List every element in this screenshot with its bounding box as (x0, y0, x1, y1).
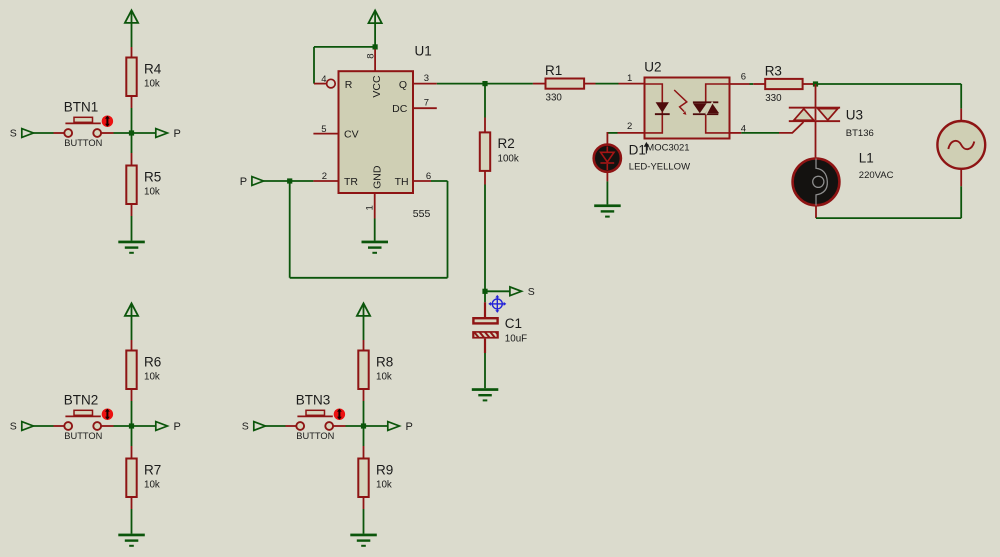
resistor R1 (546, 79, 585, 89)
wire (750, 83, 754, 85)
U2 internal triac bracket (706, 84, 730, 133)
pin stub BTN2 left (54, 425, 64, 427)
ground (BTN3 divider) (350, 534, 377, 537)
svg-text:BTN1: BTN1 (64, 99, 99, 114)
pin stub R8 top (363, 340, 365, 351)
resistor R3 (765, 79, 802, 89)
wire (313, 47, 315, 84)
terminal P arrow (BTN1) (156, 129, 168, 138)
svg-text:TH: TH (395, 176, 409, 188)
pin stub R1 right (584, 83, 595, 85)
ground (555) (362, 241, 389, 244)
pin stub U1 pin3 (Q) (413, 83, 437, 85)
wire (314, 46, 375, 48)
ground (BTN1 divider) (118, 241, 145, 244)
pin stub BTN2 right (101, 425, 114, 427)
svg-text:10k: 10k (144, 79, 160, 90)
button actuator (BTN3) (334, 409, 345, 420)
svg-text:10k: 10k (144, 187, 160, 198)
wire (132, 132, 156, 134)
wire (265, 425, 285, 427)
U2 internal triac (693, 101, 718, 103)
svg-text:R9: R9 (376, 462, 393, 477)
wire (960, 186, 962, 218)
pin stub R9 top (363, 446, 365, 459)
wire (131, 23, 133, 47)
wire (484, 185, 486, 292)
resistor R2 (480, 132, 490, 171)
wire (114, 132, 132, 134)
pin stub U1 pin6 (TH) (413, 180, 431, 182)
svg-text:R8: R8 (376, 354, 393, 369)
pin stub C1 bottom (484, 339, 486, 353)
wire (364, 425, 388, 427)
U2 light arrow (674, 90, 687, 112)
svg-text:S: S (10, 128, 17, 140)
button actuator (BTN2) (102, 409, 113, 420)
pin stub BTN3 left (286, 425, 296, 427)
wire (131, 401, 133, 426)
svg-text:C1: C1 (505, 316, 522, 331)
triac U3 (BT136) (789, 107, 840, 109)
terminal P arrow (BTN3) (388, 422, 400, 431)
wire (114, 425, 132, 427)
svg-text:10k: 10k (376, 372, 392, 383)
pin stub R5 bottom (131, 204, 133, 216)
svg-text:DC: DC (392, 103, 408, 115)
capacitor C1 bottom plate (hatched) (472, 331, 499, 339)
svg-text:BTN3: BTN3 (296, 392, 331, 407)
push button BTN3 (296, 422, 304, 430)
pin stub AC source bottom (960, 169, 962, 186)
svg-text:4: 4 (321, 74, 326, 85)
svg-text:BUTTON: BUTTON (64, 138, 102, 148)
svg-text:TR: TR (344, 176, 358, 188)
pin stub U1 pin7 (DC) (413, 107, 437, 109)
pin stub R2 bottom (484, 171, 486, 185)
wire (346, 425, 364, 427)
wire (741, 132, 779, 134)
svg-text:1: 1 (627, 73, 632, 84)
lamp filament (816, 159, 827, 206)
wire (131, 133, 133, 153)
svg-text:8: 8 (365, 53, 376, 58)
pin stub L1 bottom (815, 206, 817, 219)
wire (596, 83, 619, 85)
power rail VCC (BTN1 divider) (125, 10, 138, 23)
terminal S arrow (BTN2) (22, 422, 34, 431)
svg-text:6: 6 (426, 171, 431, 182)
svg-text:10k: 10k (144, 372, 160, 383)
svg-text:GND: GND (372, 165, 384, 189)
pin stub R6 bottom (131, 389, 133, 401)
node TR loop (287, 178, 292, 183)
svg-text:P: P (240, 176, 247, 188)
power rail VCC (BTN2 divider) (125, 303, 138, 316)
node Q output (482, 81, 487, 86)
svg-text:100k: 100k (498, 153, 519, 164)
pin stub R8 bottom (363, 389, 365, 401)
wire (431, 180, 448, 182)
pin stub D1 anode (606, 132, 608, 144)
svg-text:10k: 10k (376, 480, 392, 491)
pin stub U3 gate (779, 122, 804, 133)
svg-text:D1: D1 (629, 142, 646, 157)
terminal P arrow (555 trigger) (252, 177, 264, 186)
wire (131, 509, 133, 534)
node VCC/reset loop (373, 44, 378, 49)
LED D1 (LED-YELLOW) (594, 145, 621, 172)
node triac MT2 (813, 81, 818, 86)
wire (374, 219, 376, 241)
wire (374, 24, 376, 47)
wire (447, 181, 449, 278)
inversion bubble U1 pin 4 (327, 79, 336, 88)
wire (816, 83, 962, 85)
wire (606, 181, 608, 204)
svg-text:330: 330 (546, 92, 563, 103)
svg-text:CV: CV (344, 129, 359, 141)
svg-text:220VAC: 220VAC (859, 170, 894, 181)
pin stub U3 MT1 (815, 122, 817, 157)
origin marker (blue) (490, 296, 505, 311)
pin stub AC source top (960, 109, 962, 121)
svg-text:U1: U1 (415, 43, 432, 58)
pin stub R3 right (803, 83, 816, 85)
wire (264, 180, 314, 182)
svg-text:BT136: BT136 (846, 128, 874, 139)
pin stub U2 pin6 (730, 83, 750, 85)
button actuator (BTN1) (102, 116, 113, 127)
pin stub C1 top (484, 302, 486, 318)
pin stub R9 bottom (363, 497, 365, 509)
svg-text:R4: R4 (144, 61, 162, 76)
push button BTN1 (64, 129, 72, 137)
svg-text:U2: U2 (644, 59, 661, 74)
wire (363, 316, 365, 340)
svg-text:P: P (406, 421, 413, 433)
wire (363, 509, 365, 534)
svg-text:R2: R2 (498, 136, 515, 151)
AC source V1 (220V) (937, 121, 985, 169)
svg-text:R: R (345, 79, 353, 91)
svg-text:6: 6 (741, 71, 746, 82)
wire (363, 426, 365, 446)
svg-text:VCC: VCC (371, 75, 383, 98)
node BTN1/divider (129, 130, 134, 135)
svg-text:P: P (174, 421, 181, 433)
svg-text:BUTTON: BUTTON (64, 431, 102, 441)
pin stub BTN1 left (54, 132, 64, 134)
svg-text:555: 555 (413, 208, 431, 220)
pin stub U1 pin5 (CV) (313, 133, 338, 135)
pin stub R1 left (533, 83, 546, 85)
power rail VCC (BTN3 divider) (357, 303, 370, 316)
svg-text:R6: R6 (144, 354, 161, 369)
svg-text:10k: 10k (144, 480, 160, 491)
pin stub U1 pin2 (TR) (313, 180, 338, 182)
node C1/S (482, 289, 487, 294)
pin stub BTN3 right (333, 425, 346, 427)
wire (437, 83, 485, 85)
terminal S arrow (C1 node) (510, 287, 522, 296)
wire (131, 316, 133, 340)
pin stub U2 pin1 (619, 83, 645, 85)
wire (485, 83, 533, 85)
node BTN2/divider (129, 423, 134, 428)
power rail VCC (555) (369, 11, 382, 24)
svg-text:S: S (10, 421, 17, 433)
resistor R9 (358, 459, 368, 498)
svg-text:3: 3 (424, 73, 429, 84)
wire (484, 291, 486, 302)
pin stub R7 bottom (131, 497, 133, 509)
wire (33, 132, 53, 134)
wire (484, 84, 486, 118)
pin stub U1 pin4 (R) (314, 83, 327, 85)
pin stub U3 MT2 (815, 84, 817, 108)
U2 internal LED (656, 102, 669, 112)
svg-text:1: 1 (365, 205, 376, 210)
lamp L1 (793, 159, 840, 206)
pin stub U1 pin8 (VCC) (374, 49, 376, 71)
wire (363, 401, 365, 426)
wire (131, 426, 133, 446)
resistor R8 (358, 351, 368, 390)
svg-text:R7: R7 (144, 462, 161, 477)
wire (960, 84, 962, 109)
pin stub R5 top (131, 153, 133, 166)
svg-text:2: 2 (322, 171, 327, 182)
wire (289, 181, 291, 278)
wire (290, 277, 448, 279)
pin stub BTN1 right (101, 132, 114, 134)
svg-text:R3: R3 (765, 63, 782, 78)
wire (485, 290, 510, 292)
svg-text:P: P (174, 128, 181, 140)
terminal P arrow (BTN2) (156, 422, 168, 431)
wire (33, 425, 53, 427)
pin stub R3 left (753, 83, 765, 85)
wire (132, 425, 156, 427)
optocoupler U2 body (MOC3021) (645, 78, 730, 139)
svg-text:MOC3021: MOC3021 (646, 142, 689, 153)
U2 internal LED bracket (645, 84, 663, 133)
resistor R6 (126, 351, 136, 390)
svg-text:L1: L1 (859, 150, 874, 165)
pin stub U1 pin1 (GND) (374, 193, 376, 219)
capacitor C1 (473, 318, 497, 323)
pin stub D1 cathode (606, 172, 608, 181)
svg-text:S: S (242, 421, 249, 433)
svg-text:U3: U3 (846, 107, 863, 122)
pin stub R2 top (484, 118, 486, 133)
terminal S arrow (BTN1) (22, 129, 34, 138)
terminal S arrow (BTN3) (254, 422, 266, 431)
svg-text:R1: R1 (545, 63, 562, 78)
pin stub R4 top (131, 47, 133, 58)
wire (484, 353, 486, 388)
op-amp/timer U1 body (555) (339, 71, 414, 193)
resistor R7 (126, 459, 136, 498)
wire (816, 217, 961, 219)
pin stub R7 top (131, 446, 133, 459)
svg-text:5: 5 (321, 124, 326, 135)
svg-text:S: S (528, 286, 535, 298)
resistor R5 (126, 166, 136, 205)
svg-text:R5: R5 (144, 169, 161, 184)
ground (C1) (472, 388, 499, 391)
svg-text:BUTTON: BUTTON (296, 431, 334, 441)
wire (131, 216, 133, 241)
svg-text:2: 2 (627, 121, 632, 132)
pin stub R6 top (131, 340, 133, 351)
svg-text:330: 330 (765, 93, 782, 104)
pin stub U2 pin4 (730, 132, 742, 134)
wire (131, 108, 133, 133)
svg-text:BTN2: BTN2 (64, 392, 99, 407)
node BTN3/divider (361, 423, 366, 428)
svg-text:7: 7 (424, 97, 429, 108)
pin stub R4 bottom (131, 96, 133, 108)
svg-text:10uF: 10uF (505, 334, 527, 345)
svg-text:Q: Q (399, 79, 407, 91)
ground (BTN2 divider) (118, 534, 145, 537)
pin stub U2 pin2 (618, 132, 645, 134)
push button BTN2 (64, 422, 72, 430)
ground (D1) (594, 204, 621, 207)
resistor R4 (126, 58, 136, 97)
svg-text:LED-YELLOW: LED-YELLOW (629, 162, 690, 173)
wire (607, 132, 618, 134)
